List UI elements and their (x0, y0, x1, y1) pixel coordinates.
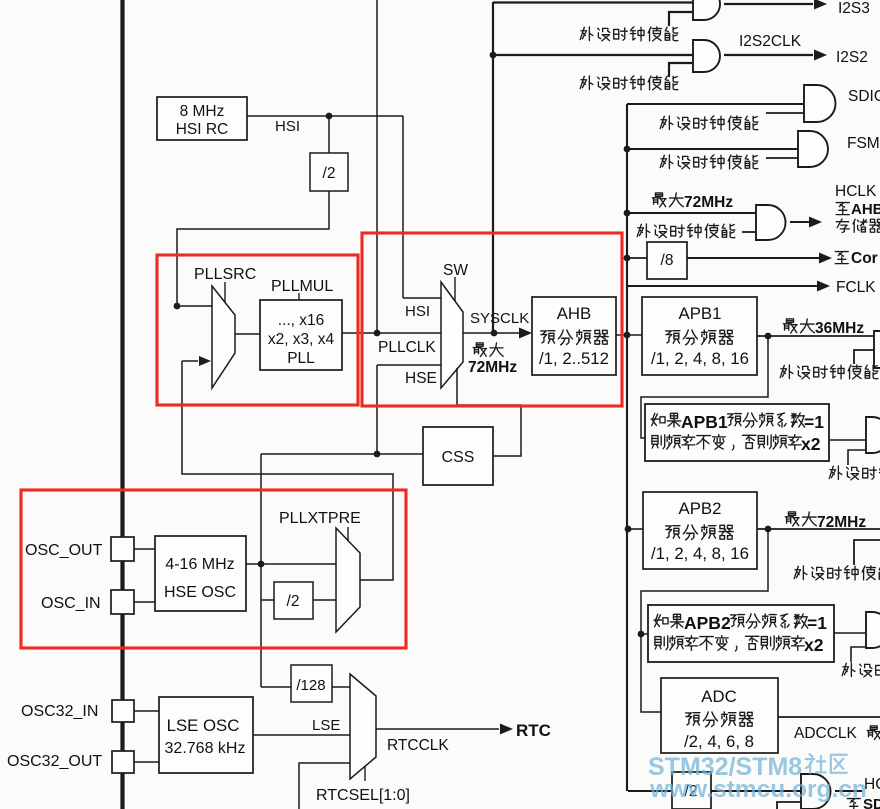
svg-text:HSI: HSI (405, 303, 430, 320)
wire ADCCLK (778, 716, 880, 718)
svg-text:/1, 2..512: /1, 2..512 (539, 349, 609, 368)
wire bus to APB2 (628, 528, 643, 530)
block APB2 prescaler (643, 492, 757, 569)
wire into PLLSRC mux (177, 305, 212, 307)
wire PLLCLK vertical bus (376, 0, 378, 333)
label peripheral-clock-enable 2 (580, 76, 678, 90)
wire HSE OSC output (246, 563, 336, 565)
svg-text:ADC: ADC (701, 687, 736, 706)
wire PLLXTPRE select (347, 527, 349, 541)
svg-text:/8: /8 (661, 252, 674, 269)
svg-text:RTCSEL[1:0]: RTCSEL[1:0] (316, 787, 410, 804)
node PLLSRC input junction (174, 303, 181, 310)
svg-text:=1: =1 (804, 412, 824, 432)
wire note2 to gate (834, 632, 866, 634)
svg-text:PLLMUL: PLLMUL (271, 278, 333, 295)
wire SW select (454, 277, 456, 301)
wire HSI to /2 (328, 116, 330, 153)
wire APB1 to TIM note (641, 336, 768, 438)
svg-text:..., x16: ..., x16 (278, 312, 325, 329)
svg-text:x2: x2 (804, 635, 824, 655)
wire HSE into SW mux (377, 364, 441, 366)
svg-text:4-16 MHz: 4-16 MHz (165, 556, 234, 573)
label to-AHB (836, 203, 849, 215)
pin OSC32_OUT (112, 751, 134, 773)
wire note2 enable stub (851, 647, 866, 662)
pin OSC32_IN (112, 700, 134, 722)
label peripheral-clock-enable TIM1 (clipped) (829, 466, 880, 480)
svg-text:AHB: AHB (557, 304, 592, 323)
svg-text:SW: SW (443, 262, 468, 279)
wire HSE vertical to SW (376, 365, 378, 454)
wire HCLK enable stub (742, 231, 756, 233)
svg-text:x2: x2 (801, 434, 821, 454)
block CSS (423, 427, 493, 485)
wire to /8 (627, 257, 647, 259)
wire RTCCLK (376, 728, 499, 730)
arrow I2S2 (814, 50, 827, 61)
label prescaler AHB (541, 330, 608, 345)
watermark STM32/STM8 community (648, 753, 867, 803)
divider /2 box bottom (672, 772, 711, 809)
wire LSE output (253, 734, 350, 736)
wire I2S2 input (493, 54, 693, 56)
svg-text:Cor: Cor (851, 250, 878, 267)
wire APB2 enable stub (854, 540, 880, 565)
note box APB1 x2 (645, 404, 829, 461)
node AHB output junction (624, 332, 631, 339)
wire APB2 output (757, 528, 880, 530)
svg-text:RTCCLK: RTCCLK (387, 737, 449, 754)
label to-SDIO (clipped) (847, 799, 860, 809)
block 8MHz HSI RC (157, 97, 247, 140)
note box APB2 x2 (648, 605, 834, 662)
svg-text:I2S2CLK: I2S2CLK (739, 33, 802, 50)
label peripheral-clock-enable SDIO (660, 116, 758, 130)
arrow SYSCLK (519, 328, 532, 339)
label memory (836, 219, 880, 233)
note1 line2 (652, 435, 801, 450)
node PLLCLK junction (374, 330, 381, 337)
svg-text:HSI: HSI (275, 118, 300, 135)
node SYSCLK/I2S junction (490, 52, 497, 59)
svg-text:72MHz: 72MHz (468, 359, 517, 376)
wire AHB to APB1 (616, 334, 642, 336)
svg-text:OSC_OUT: OSC_OUT (25, 542, 103, 559)
wire /2 to gate (711, 790, 801, 792)
pin OSC_IN (111, 590, 134, 614)
note2 line1 ruguo (654, 614, 684, 628)
AND gate HCLK (756, 205, 786, 240)
svg-text:LSE OSC: LSE OSC (167, 716, 240, 735)
arrow PLLSRC input (199, 356, 211, 366)
wire /2 to PLLXTPRE (313, 599, 336, 601)
block 4-16MHz HSE OSC (155, 536, 246, 611)
label max-72MHz HCLK (652, 193, 683, 207)
wire OSC_OUT to HSE OSC (134, 548, 155, 550)
mux RTCSEL (350, 674, 376, 779)
svg-text:8 MHz: 8 MHz (180, 103, 225, 120)
svg-text:I2S3: I2S3 (838, 0, 870, 17)
wire APB2 to TIM note (641, 529, 768, 634)
block LSE OSC (159, 697, 253, 773)
node HSE/CSS junction (374, 451, 381, 458)
mux SW (441, 282, 463, 388)
annotation red box PLL (157, 255, 358, 405)
wire HSI output (247, 115, 403, 117)
svg-text:OSC32_IN: OSC32_IN (21, 703, 98, 720)
svg-text:APB2: APB2 (684, 613, 731, 633)
node FSMC junction (624, 146, 631, 153)
wire to /2 HSE (261, 599, 276, 601)
svg-text:/2: /2 (287, 593, 300, 610)
svg-text:RTC: RTC (516, 721, 551, 740)
wire HSE to CSS (261, 453, 423, 455)
svg-text:ADCCLK: ADCCLK (794, 725, 858, 742)
svg-text:PLLCLK: PLLCLK (378, 339, 436, 356)
svg-text:/2, 4, 6, 8: /2, 4, 6, 8 (684, 732, 754, 751)
svg-text:/2: /2 (323, 165, 336, 182)
svg-text:HSI RC: HSI RC (176, 121, 229, 138)
label peripheral-clock-enable 1 (580, 27, 678, 41)
wire PLL output / PLLCLK (342, 332, 441, 334)
svg-text:72MHz: 72MHz (684, 194, 733, 211)
wire RTCSEL select (364, 767, 366, 781)
svg-text:PLL: PLL (287, 350, 315, 367)
label peripheral-clock-enable HCLK (637, 224, 735, 238)
wire FSMC enable stub (766, 157, 798, 159)
chip boundary line (120, 0, 124, 809)
svg-text:=1: =1 (807, 613, 827, 633)
svg-text:APB2: APB2 (679, 499, 722, 518)
svg-text:PLLSRC: PLLSRC (194, 266, 256, 283)
svg-text:/128: /128 (296, 677, 325, 694)
wire PLLXTPRE to PLLSRC (182, 361, 393, 580)
node HSI junction (326, 113, 333, 120)
AND gate FSMC (798, 131, 828, 167)
mux PLLXTPRE (336, 528, 360, 632)
svg-text:72MHz: 72MHz (817, 514, 866, 531)
svg-text:CSS: CSS (442, 449, 475, 466)
wire FSMC gate input (627, 148, 798, 150)
wire HSE into PLLSRC (182, 360, 198, 362)
mux PLLSRC (212, 286, 235, 388)
wire bus to bottom /2 (628, 790, 672, 792)
svg-text:x2, x3, x4: x2, x3, x4 (268, 331, 335, 348)
svg-text:APB1: APB1 (679, 304, 722, 323)
AND gate TIM APB1 (clipped) (866, 417, 880, 453)
svg-text:AHB: AHB (851, 201, 880, 218)
svg-text:FSMC: FSMC (847, 135, 880, 152)
svg-text:HCLK: HCLK (835, 183, 877, 200)
wire SDIO enable stub (766, 112, 804, 114)
pin OSC_OUT (111, 537, 134, 561)
wire HCLK/2 output (835, 790, 862, 792)
AND gate TIM APB2 (clipped) (866, 612, 880, 648)
svg-text:www.stmcu.org.cn: www.stmcu.org.cn (649, 776, 867, 803)
label peripheral-clock-enable APB1 (780, 365, 878, 379)
wire APB1 output (757, 335, 880, 337)
arrow FCLK (817, 281, 830, 292)
wire APB1 enable stub (854, 350, 880, 364)
wire SW mux to CSS (457, 368, 521, 456)
AND gate I2S2 (693, 40, 720, 72)
wire HCLK gate input (627, 212, 756, 214)
wire Cortex systick (687, 257, 820, 259)
svg-text:FCLK: FCLK (836, 279, 876, 296)
wire PLLSRC to PLL (235, 333, 260, 335)
node note2 junction (638, 631, 645, 638)
annotation red box SW/AHB (362, 233, 622, 406)
label max-72MHz APB2 (785, 512, 816, 526)
AND gate I2S3 (693, 0, 720, 20)
svg-text:I2S2: I2S2 (836, 49, 868, 66)
label peripheral-clock-enable TIM APB2 (clipped) (842, 663, 880, 677)
node APB2 output junction (765, 526, 772, 533)
svg-text:HSE: HSE (405, 370, 437, 387)
svg-text:SYSCLK: SYSCLK (470, 310, 529, 327)
wire into note2 (641, 633, 648, 635)
block AHB prescaler (532, 297, 616, 375)
svg-text:SDIO: SDIO (848, 88, 880, 105)
wire HSE to /128 (261, 686, 291, 688)
wire OSC_IN to HSE OSC (134, 601, 155, 603)
wire note1 to gate (829, 439, 866, 441)
label max-36MHz (783, 319, 814, 333)
svg-text:APB1: APB1 (681, 412, 728, 432)
divider /2 box HSI (310, 153, 348, 191)
note1 line1 ruguo (651, 413, 681, 427)
svg-text:36MHz: 36MHz (815, 320, 864, 337)
wire to ADC prescaler (641, 634, 661, 712)
label max (473, 343, 503, 357)
label prescaler APB1 (666, 330, 733, 345)
svg-text:OSC_IN: OSC_IN (41, 595, 101, 612)
label peripheral-clock-enable FSMC (660, 155, 758, 169)
wire OSC32_IN (134, 710, 159, 712)
node APB2 input junction (625, 526, 632, 533)
divider /8 box (647, 242, 687, 279)
arrow I2S3 (814, 0, 827, 9)
wire SYSCLK vertical bus (492, 2, 494, 333)
wire HSE vertical to /128 (260, 454, 262, 687)
arrow HCLK (809, 217, 822, 228)
AND gate APB1 peripheral (clipped) (874, 331, 880, 368)
svg-text:HSE OSC: HSE OSC (164, 584, 236, 601)
svg-text:/1, 2, 4, 8, 16: /1, 2, 4, 8, 16 (651, 544, 749, 563)
svg-text:32.768 kHz: 32.768 kHz (165, 740, 246, 757)
wire HSI into SW mux (403, 297, 441, 299)
arrow RTC (500, 724, 513, 735)
label max-14MHz (clipped) (867, 726, 880, 740)
wire SYSCLK output (463, 332, 521, 334)
wire note1 enable stub (848, 450, 866, 465)
wire I2S2 enable stub (669, 63, 693, 77)
wire HCLK vertical bus (626, 104, 628, 791)
svg-text:/1, 2, 4, 8, 16: /1, 2, 4, 8, 16 (651, 349, 749, 368)
arrow to Cortex (819, 253, 832, 264)
node HSE junction (258, 561, 265, 568)
divider /128 box (291, 665, 332, 702)
label prescaler APB2 (666, 525, 733, 540)
node /8 junction (624, 255, 631, 262)
annotation red box HSE (21, 490, 406, 648)
node HCLK junction (624, 210, 631, 217)
wire PLLMUL select (298, 293, 300, 300)
svg-text:OSC32_OUT: OSC32_OUT (7, 753, 102, 770)
block APB1 prescaler (642, 297, 757, 375)
label prescaler ADC (686, 712, 753, 727)
wire FCLK (628, 285, 818, 287)
block ADC prescaler (661, 678, 778, 753)
note2 line2 (655, 636, 804, 651)
AND gate HCLK/2 (801, 774, 831, 809)
label to-Cortex (835, 252, 848, 264)
wire PLLSRC select (224, 282, 226, 302)
wire I2S3 output (724, 3, 813, 5)
wire /128 to RTC mux (332, 686, 350, 688)
wire HSI to SW vertical (402, 116, 404, 298)
wire I2S3 enable stub (669, 12, 693, 26)
block PLL (260, 300, 342, 370)
divider /2 box HSE (274, 582, 313, 619)
wire OSC32_OUT (134, 761, 159, 763)
wire I2S3 input (493, 1, 693, 3)
wire SDIO gate input (627, 103, 804, 105)
wire LSI into RTC mux (299, 763, 350, 809)
wire I2S2 output (724, 54, 813, 56)
wire HCLK output (790, 221, 810, 223)
wire HSI/2 to PLLSRC (177, 191, 329, 306)
wire bottom gate enable stub (777, 802, 801, 809)
svg-text:PLLXTPRE: PLLXTPRE (279, 510, 361, 527)
AND gate SDIO (804, 85, 836, 122)
node APB1 output junction (765, 333, 772, 340)
node SYSCLK junction (491, 330, 498, 337)
svg-text:LSE: LSE (312, 717, 340, 734)
label peripheral-clock-enable APB2 (794, 566, 880, 580)
